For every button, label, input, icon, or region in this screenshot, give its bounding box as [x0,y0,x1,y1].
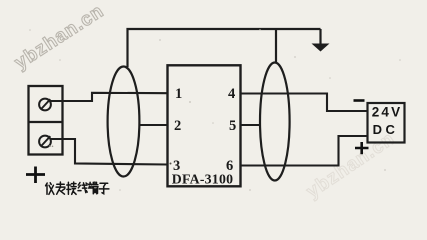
wire: U1 pin 4 to PS1 minus [241,94,369,112]
terminal block TB1 outline [29,86,63,155]
svg-text:5: 5 [229,118,236,134]
label 仪表接线端子 (instrument terminal block) [46,182,109,194]
speckles [29,29,401,191]
wire: U1 pin 5 to right shield [241,124,262,126]
svg-text:2: 2 [174,118,181,134]
label - (PS1 minus) [354,99,365,102]
label + (instrument polarity) [26,167,45,184]
svg-text:ybzhan.cn: ybzhan.cn [11,1,108,74]
char 端 [88,182,98,194]
terminal screw 2 [39,136,51,148]
label + (PS1 plus) [355,142,369,154]
wire: shield drop to right cable [275,29,277,63]
cable shield right (ellipse) [260,63,290,181]
wire: left shield to U1 pin 2 [140,124,168,126]
module U1 DFA-3100 outline [168,65,241,186]
wire: U1 pin 6 to PS1 plus [241,136,369,166]
char 子 [99,183,109,193]
svg-text:DFA-3100: DFA-3100 [172,172,234,187]
wire: TB1 screw1 to U1 pin 1 [50,93,168,101]
svg-text:24V: 24V [372,105,403,120]
char 接 [67,182,76,194]
ground: earth arrow [319,29,321,45]
char 线 [78,183,87,193]
terminal block TB1 divider [29,121,63,123]
wire: top shield bus [128,29,321,67]
char 仪 [46,183,54,195]
char 表 [56,182,65,194]
wire: TB1 screw2 to U1 pin 3 [50,139,168,165]
terminal screw 1 [39,99,51,111]
power supply PS1 24V DC outline [368,103,405,143]
cable shield left (ellipse) [108,67,140,177]
svg-text:DC: DC [373,122,399,137]
svg-text:1: 1 [175,86,182,102]
svg-text:4: 4 [228,86,235,102]
